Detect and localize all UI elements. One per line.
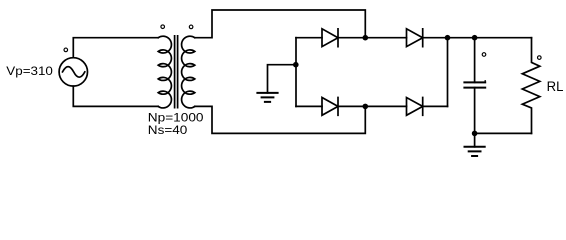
- transformer T1 secondary winding: [182, 36, 195, 108]
- node dot capacitor bottom: [472, 131, 478, 137]
- ac source V1: [59, 58, 87, 86]
- node dot bridge mid-top: [363, 35, 369, 41]
- node dot bridge mid-bottom: [363, 104, 369, 110]
- left ground symbol: [257, 93, 277, 102]
- diode D3: [322, 98, 338, 116]
- transformer core lines: [175, 36, 178, 108]
- svg-text:Vp=310: Vp=310: [6, 66, 53, 78]
- capacitor polarity open dot: [482, 53, 486, 57]
- sine symbol of source: [63, 67, 85, 78]
- wire source bottom to primary bottom: [73, 86, 158, 106]
- transformer T1 primary winding: [158, 36, 171, 108]
- polarity open dot of source: [64, 48, 68, 52]
- wire secondary top to bridge mid-top node: [195, 10, 365, 38]
- resistor RL: [522, 38, 540, 134]
- bridge right vertical wire: [447, 38, 449, 107]
- wire source top to primary top: [73, 38, 158, 58]
- node dot capacitor top: [472, 35, 478, 41]
- resistor polarity open dot: [538, 56, 542, 60]
- node dot ground tap: [293, 62, 299, 68]
- bridge left vertical wire: [295, 38, 297, 107]
- diode D4: [407, 98, 423, 116]
- node dot bridge output top-right: [445, 35, 451, 41]
- capacitor plus tick: [484, 81, 486, 83]
- output top rail wire: [448, 37, 532, 39]
- bridge bottom row wire: [296, 105, 448, 107]
- secondary phase open dot: [189, 25, 193, 29]
- wire secondary bottom to bridge mid-bottom node: [195, 106, 365, 133]
- svg-text:Ns=40: Ns=40: [148, 124, 188, 137]
- bridge top row wire: [296, 37, 448, 39]
- primary phase open dot: [161, 25, 165, 29]
- wire to right ground: [474, 133, 476, 146]
- bottom output rail wire: [475, 132, 532, 134]
- capacitor C1 bottom lead: [474, 88, 476, 134]
- right ground symbol: [465, 147, 485, 156]
- wire to left ground: [268, 65, 296, 93]
- diode D1: [322, 29, 338, 47]
- capacitor C1 top lead: [474, 38, 476, 83]
- diode D2: [407, 29, 423, 47]
- svg-text:RL: RL: [547, 78, 564, 94]
- svg-text:Np=1000: Np=1000: [148, 112, 204, 125]
- capacitor C1 plates: [464, 82, 485, 87]
